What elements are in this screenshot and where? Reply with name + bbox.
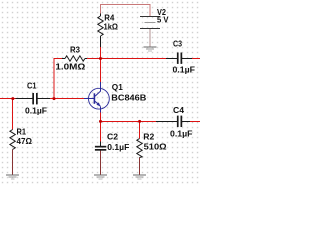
wire C4 right to edge bbox=[190, 120, 200, 122]
wire emitter node down to R2 bbox=[139, 121, 141, 138]
wire input left edge to C1 bbox=[0, 98, 16, 100]
svg-text:0.1µF: 0.1µF bbox=[107, 142, 129, 152]
resistor R4 1kOhm bbox=[98, 14, 103, 48]
svg-text:BC846B: BC846B bbox=[111, 93, 146, 103]
wire top rail from R4 to V2 bbox=[101, 5, 151, 17]
svg-text:510Ω: 510Ω bbox=[144, 141, 167, 151]
svg-text:0.1µF: 0.1µF bbox=[170, 128, 193, 138]
wire collector node vertical R4 to junction bbox=[100, 47, 102, 59]
capacitor C2 0.1uF bbox=[95, 142, 106, 151]
svg-text:C2: C2 bbox=[107, 131, 118, 141]
wire C2 bottom to ground bbox=[100, 151, 102, 175]
svg-text:R2: R2 bbox=[143, 131, 154, 141]
ground under C2 bbox=[94, 175, 107, 180]
wire R2 bottom to ground bbox=[139, 158, 141, 175]
svg-text:0.1µF: 0.1µF bbox=[25, 105, 47, 115]
svg-text:R3: R3 bbox=[70, 44, 80, 54]
wire input junction down to R1 bbox=[12, 99, 14, 130]
wire collector node to C3 bbox=[101, 58, 167, 60]
node R2 junction bbox=[138, 120, 141, 123]
wire C1 to Q1 base bbox=[50, 98, 85, 100]
capacitor C4 0.1uF bbox=[156, 116, 190, 127]
ground under R1 bbox=[6, 175, 19, 180]
wire C3 right to edge bbox=[192, 58, 200, 60]
svg-text:C1: C1 bbox=[27, 80, 37, 90]
capacitor C3 0.1uF bbox=[166, 53, 192, 64]
resistor R3 1.0MOhm bbox=[62, 56, 87, 61]
svg-text:47Ω: 47Ω bbox=[17, 136, 33, 146]
wire R1 bottom to ground bbox=[12, 150, 14, 175]
resistor R1 47Ohm bbox=[10, 130, 15, 150]
wire collector down to Q1 bbox=[100, 59, 102, 84]
resistor R2 510Ohm bbox=[137, 139, 142, 158]
wire emitter node horizontal bbox=[101, 120, 157, 122]
svg-text:Q1: Q1 bbox=[112, 82, 123, 92]
svg-text:1kΩ: 1kΩ bbox=[104, 22, 119, 32]
svg-text:C4: C4 bbox=[173, 105, 184, 115]
svg-text:0.1µF: 0.1µF bbox=[173, 64, 196, 74]
svg-text:C3: C3 bbox=[173, 38, 182, 48]
node base junction bbox=[53, 97, 56, 100]
wire R3 right lead to junction bbox=[87, 58, 101, 60]
wire V2 bottom to ground bbox=[149, 29, 151, 47]
transistor Q1 BC846B bbox=[84, 82, 109, 113]
wire junction up to R3 left bbox=[54, 59, 62, 99]
node input junction bbox=[11, 97, 14, 100]
svg-text:1.0MΩ: 1.0MΩ bbox=[55, 61, 85, 71]
ground under R2 bbox=[133, 175, 146, 180]
battery V2 5V bbox=[140, 16, 160, 29]
wire emitter node down to C2 bbox=[100, 121, 102, 141]
svg-text:R1: R1 bbox=[17, 127, 27, 137]
ground under V2 bbox=[144, 47, 157, 52]
wire Q1 emitter down to junction bbox=[100, 113, 102, 122]
capacitor C1 0.1uF bbox=[16, 93, 51, 104]
node collector junction bbox=[99, 57, 102, 60]
node emitter junction bbox=[99, 120, 102, 123]
svg-text:5 V: 5 V bbox=[157, 15, 169, 25]
